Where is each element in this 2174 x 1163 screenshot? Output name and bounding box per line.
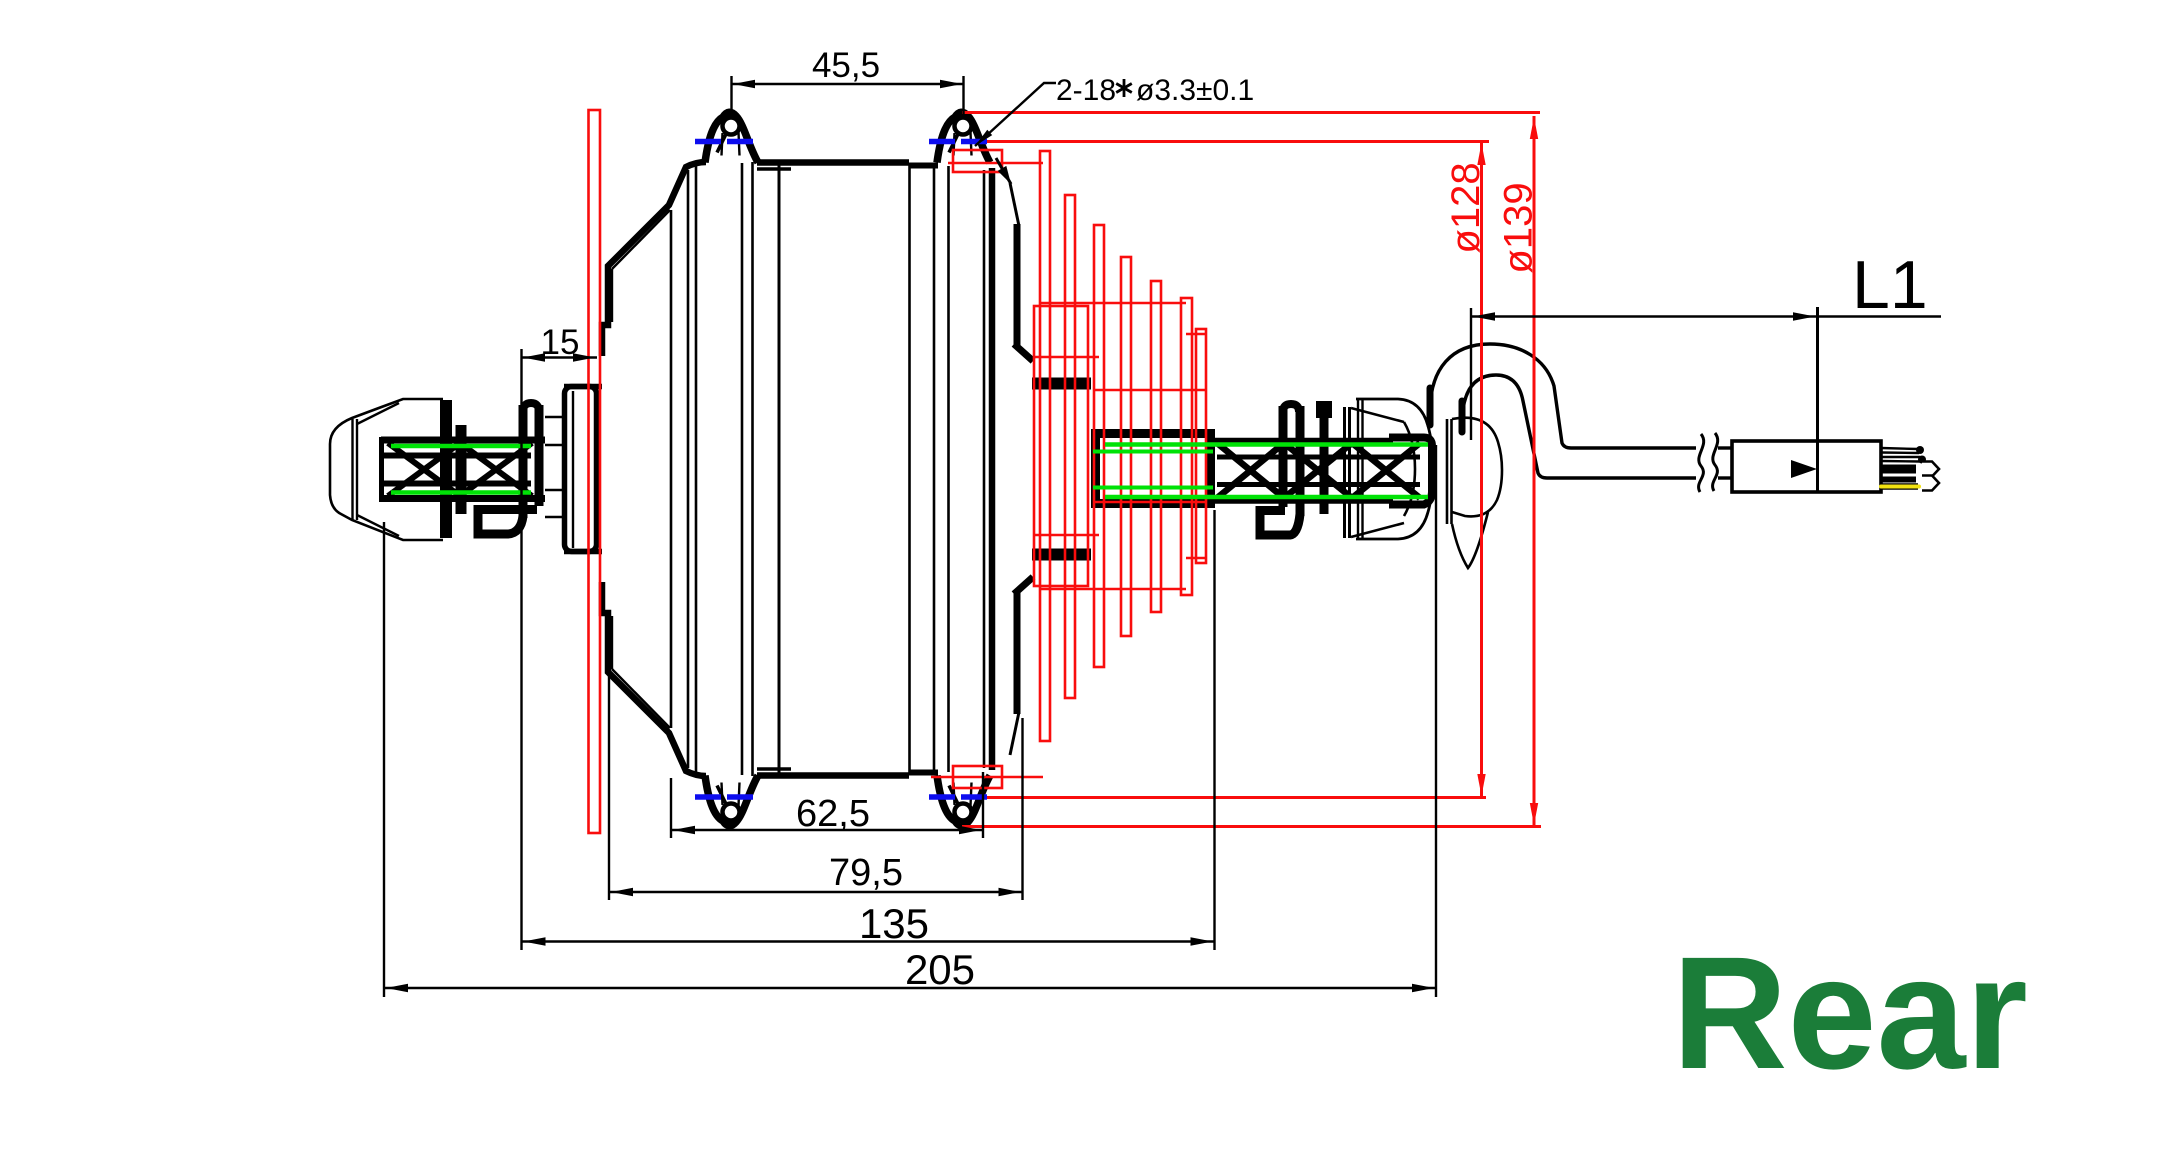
left tie lines bbox=[545, 417, 563, 517]
center mark bottom-right (blue) bbox=[929, 794, 989, 800]
cassette spider lines (red) bbox=[1033, 303, 1207, 589]
freehub flange top bar bbox=[1032, 378, 1091, 390]
svg-text:L1: L1 bbox=[1852, 247, 1928, 323]
connector arrow bbox=[1791, 460, 1817, 478]
cable outer curve bbox=[1430, 344, 1696, 448]
spoke nipple detail bottom-right (red) bbox=[931, 766, 1043, 788]
axle green line right-bottom bbox=[1105, 495, 1428, 500]
dimension 79.5 bbox=[609, 852, 1023, 896]
svg-text:79,5: 79,5 bbox=[829, 852, 903, 894]
freehub flange bottom bar bbox=[1032, 549, 1091, 561]
diameter 139 extent top (red) bbox=[962, 111, 1540, 114]
freehub outline top bbox=[1010, 183, 1033, 361]
spoke lug top-right bbox=[937, 112, 990, 162]
connector body bbox=[1732, 441, 1881, 492]
dim 45.5 extension lines bbox=[732, 76, 964, 116]
dimension 45.5 bbox=[732, 46, 964, 88]
left mount plate bbox=[564, 387, 602, 552]
svg-text:2-18: 2-18 bbox=[1056, 74, 1116, 107]
dimension diameter 128 (red) bbox=[1444, 142, 1488, 797]
diameter 139 extent bottom (red) bbox=[962, 825, 1541, 828]
right dropout hanger bbox=[1447, 418, 1502, 568]
cable inner curve bbox=[1462, 375, 1696, 478]
dimension 205 bbox=[384, 946, 1436, 993]
wire plug upper bbox=[1922, 462, 1939, 477]
brake disc rotor (red) bbox=[589, 110, 601, 833]
svg-text:15: 15 bbox=[541, 323, 580, 362]
dimension 135 bbox=[522, 900, 1215, 947]
axle green line right-top bbox=[1105, 442, 1428, 447]
cassette sprockets (red) bbox=[1040, 151, 1206, 741]
cable sheath bar right bbox=[1459, 401, 1466, 432]
freehub green line top bbox=[1093, 450, 1213, 454]
left locknut bbox=[446, 400, 461, 538]
cable sheath bar left bbox=[1427, 388, 1434, 425]
svg-text:205: 205 bbox=[905, 946, 975, 993]
wire plug lower bbox=[1922, 476, 1939, 491]
center mark top-right (blue) bbox=[929, 139, 989, 145]
right axle bottom edge bbox=[1211, 485, 1420, 501]
left dropout J bbox=[478, 403, 539, 534]
svg-text:62,5: 62,5 bbox=[796, 793, 870, 835]
dimension diameter 139 (red) bbox=[1497, 116, 1541, 826]
hub shell bottom edge bbox=[757, 769, 938, 776]
right flange washer bbox=[1345, 407, 1405, 538]
svg-text:135: 135 bbox=[859, 900, 929, 947]
center mark top-left (blue) bbox=[695, 139, 757, 145]
hub left cone bottom bbox=[602, 582, 706, 776]
right axle boss bbox=[1096, 434, 1211, 504]
hub right wall bbox=[984, 168, 992, 770]
dim 79.5 extension lines bbox=[609, 620, 1023, 900]
spoke lug bottom-right bbox=[937, 776, 990, 826]
left axle threads bbox=[388, 443, 532, 496]
right axle top edge bbox=[1211, 441, 1420, 457]
label Rear bbox=[1672, 923, 2028, 1102]
cassette carrier (red) bbox=[1034, 306, 1088, 586]
dim 62.5 extension lines bbox=[671, 772, 983, 838]
dimension L1 bbox=[1471, 247, 1941, 323]
left nut cap bbox=[330, 399, 443, 540]
freehub outline bottom bbox=[1010, 577, 1033, 755]
spoke nipple detail top-right (red) bbox=[948, 150, 1043, 172]
svg-text:ø3.3±0.1: ø3.3±0.1 bbox=[1136, 74, 1254, 107]
yellow wire bbox=[1881, 483, 1919, 490]
svg-text:Rear: Rear bbox=[1672, 923, 2028, 1102]
left axle body bbox=[381, 437, 545, 502]
dimension 62.5 bbox=[671, 793, 983, 835]
svg-text:ø128: ø128 bbox=[1444, 162, 1488, 253]
axle green line left-bottom bbox=[391, 490, 531, 495]
right dropout J bbox=[1260, 404, 1300, 535]
hub shell seam lines bbox=[671, 162, 949, 776]
axle green line left-top bbox=[391, 444, 531, 449]
cable break symbol bbox=[1699, 433, 1732, 492]
svg-text:45,5: 45,5 bbox=[812, 46, 880, 85]
right dome nut bbox=[1356, 399, 1433, 539]
hub left cone top bbox=[602, 162, 706, 356]
wires bbox=[1881, 446, 1926, 480]
spoke hole callout bbox=[975, 74, 1254, 184]
right axle threads bbox=[1217, 443, 1420, 498]
center mark bottom-left (blue) bbox=[695, 794, 757, 800]
right key washer bbox=[1318, 403, 1330, 514]
dim 205 extension lines bbox=[384, 445, 1436, 997]
dimension 15 bbox=[521, 323, 597, 362]
hub shell top edge bbox=[757, 163, 938, 170]
svg-text:ø139: ø139 bbox=[1497, 182, 1541, 273]
dim L1 extension lines bbox=[1471, 307, 1818, 492]
freehub green line bottom bbox=[1093, 486, 1213, 490]
diameter 128 extent top (red) bbox=[968, 140, 1489, 143]
diameter 128 extent bottom (red) bbox=[968, 796, 1486, 799]
right axle end cap bbox=[1389, 438, 1432, 505]
spoke lug bottom-left bbox=[705, 776, 758, 826]
dim 135 extension lines bbox=[522, 349, 1215, 950]
spoke lug top-left bbox=[705, 112, 758, 162]
